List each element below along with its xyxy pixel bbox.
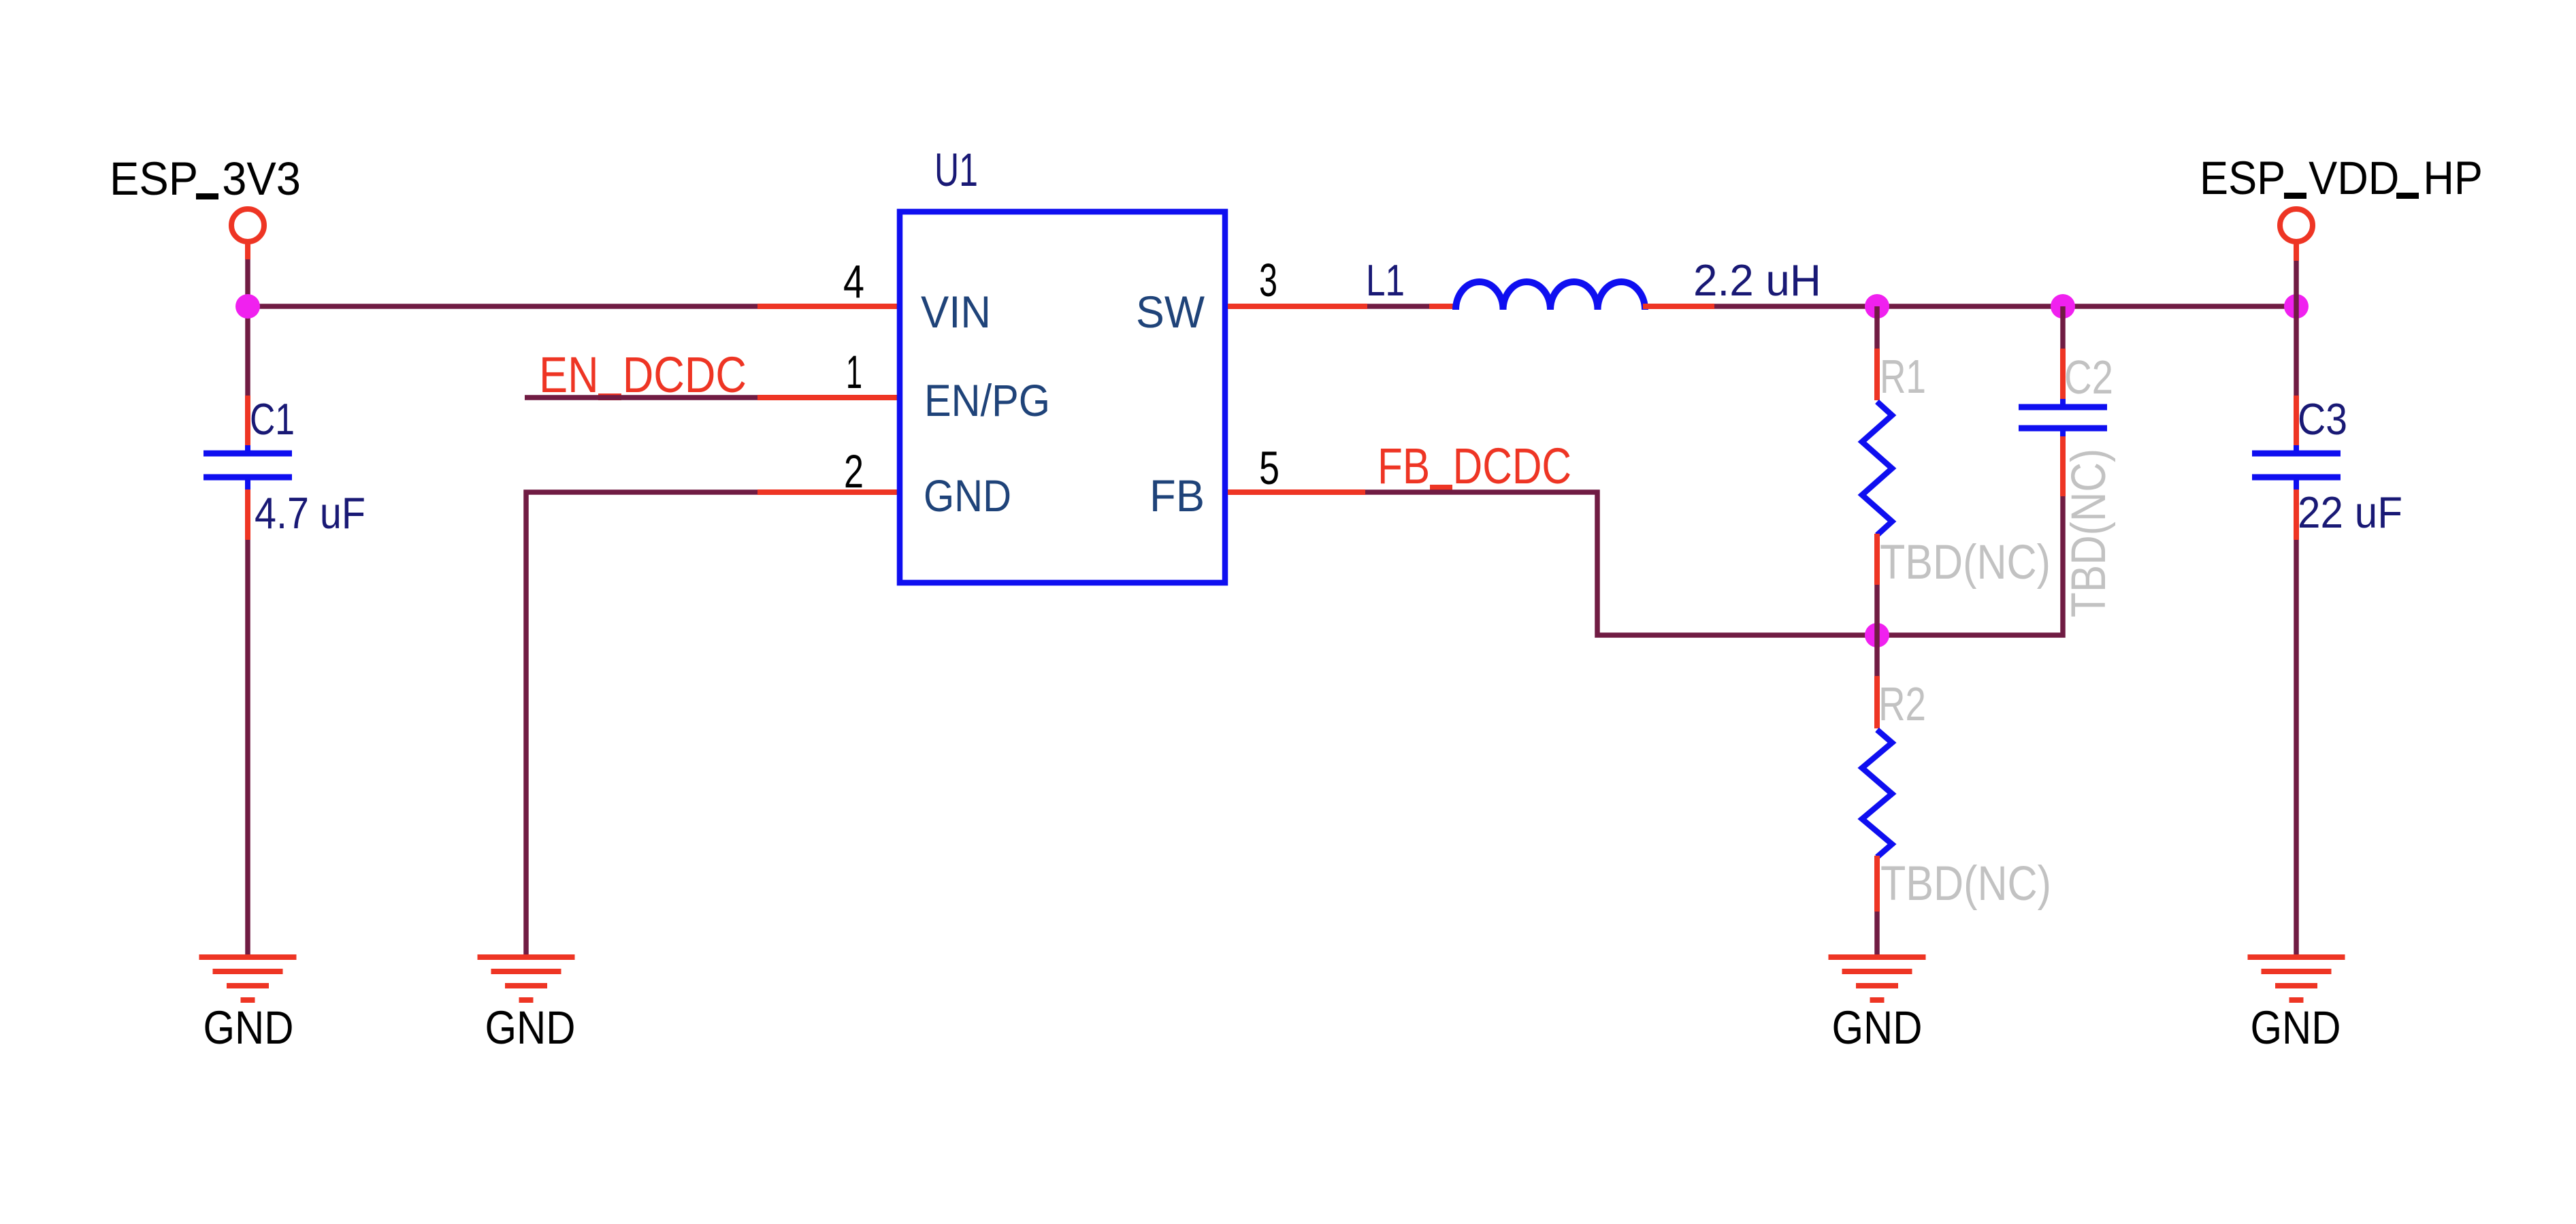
capacitor C3 top pin (red)	[2294, 396, 2299, 447]
svg-text:TBD(NC): TBD(NC)	[2062, 449, 2116, 617]
ground symbol GND1	[199, 957, 297, 1000]
wire SW to L1	[1367, 304, 1429, 309]
pin 4 VIN red stub	[757, 304, 897, 309]
wire R2 to GND3	[1874, 912, 1880, 954]
inductor L1 right pin (red)	[1643, 304, 1714, 309]
resistor R2 bottom pin (red)	[1874, 856, 1880, 912]
svg-text:U1: U1	[934, 144, 978, 196]
svg-text:C3: C3	[2298, 394, 2347, 444]
ground symbol GND2	[478, 957, 575, 1000]
capacitor C3 plates	[2252, 451, 2341, 457]
capacitor C1 bottom pin (red)	[245, 489, 250, 540]
wire C2 branch top	[2060, 306, 2066, 349]
svg-text:EN DCDC: EN DCDC	[539, 347, 747, 403]
svg-text:GND: GND	[203, 1001, 294, 1054]
junction at ESP_VDD_HP/C3	[2284, 294, 2309, 319]
resistor R2 zigzag	[1862, 730, 1892, 857]
capacitor C1 top nub	[245, 445, 250, 451]
resistor R2 top pin (red)	[1874, 676, 1880, 728]
wire C3 to GND4	[2294, 540, 2299, 954]
pin 5 FB red stub	[1228, 489, 1365, 495]
svg-text:R2: R2	[1878, 677, 1926, 730]
svg-text:FB DCDC: FB DCDC	[1377, 438, 1571, 494]
capacitor C1 top pin (red)	[245, 396, 250, 447]
svg-text:C2: C2	[2064, 351, 2113, 404]
pin 1 EN/PG red stub	[757, 395, 897, 400]
svg-text:FB: FB	[1150, 470, 1205, 521]
resistor R1 zigzag	[1862, 402, 1892, 535]
resistor R1 bottom pin (red)	[1874, 534, 1880, 585]
svg-text:4.7 uF: 4.7 uF	[255, 488, 365, 538]
wire ESP_3V3 vertical to C1	[245, 259, 250, 396]
wire EN_DCDC net	[525, 395, 757, 400]
svg-text:SW: SW	[1136, 287, 1205, 337]
inductor L1 left pin (red)	[1429, 304, 1456, 309]
svg-text:22 uF: 22 uF	[2298, 487, 2402, 537]
capacitor C2 plates	[2019, 404, 2107, 410]
ground symbol GND3	[1829, 957, 1926, 1000]
capacitor C2 top nub	[2060, 399, 2066, 404]
capacitor C2 bottom nub	[2060, 431, 2066, 436]
svg-text:GND: GND	[924, 470, 1011, 521]
node ESP_3V3 power port circle	[231, 209, 264, 242]
svg-text:5: 5	[1259, 442, 1279, 494]
capacitor C1 plates	[203, 451, 292, 457]
pin 3 SW red stub	[1228, 304, 1367, 309]
wire junction to R1	[1874, 306, 1880, 349]
pin 2 GND red stub	[757, 489, 897, 495]
junction at R1/R2 divider	[1865, 623, 1889, 647]
svg-text:1: 1	[846, 346, 862, 398]
svg-text:GND: GND	[1832, 1001, 1923, 1054]
svg-text:L1: L1	[1366, 255, 1405, 305]
wire ESP_VDD_HP port stub (red)	[2294, 242, 2299, 261]
node ESP_VDD_HP power port circle	[2280, 209, 2313, 242]
capacitor C3 top nub	[2294, 445, 2299, 451]
wire top rail left (ESP_3V3 to VIN)	[248, 304, 757, 309]
wire C1 to GND	[245, 540, 250, 954]
svg-text:TBD(NC): TBD(NC)	[1880, 536, 2051, 590]
wire R1 to divider junction	[1874, 585, 1880, 635]
svg-text:C1: C1	[250, 394, 295, 444]
capacitor C2 top pin (red)	[2060, 349, 2066, 400]
svg-text:TBD(NC): TBD(NC)	[1880, 857, 2051, 911]
junction at R1 branch	[1865, 294, 1889, 319]
capacitor C3 bottom pin (red)	[2294, 489, 2299, 540]
junction at ESP_3V3/C1	[235, 294, 260, 319]
svg-text:GND: GND	[2251, 1001, 2341, 1054]
wire divider junction to R2	[1874, 635, 1880, 676]
svg-text:R1: R1	[1880, 350, 1926, 403]
capacitor C1 bottom nub	[245, 480, 250, 489]
wire ESP_VDD_HP vertical to C3	[2294, 261, 2299, 396]
svg-text:2.2 uH: 2.2 uH	[1693, 255, 1821, 305]
capacitor C3 bottom nub	[2294, 480, 2299, 489]
svg-text:EN/PG: EN/PG	[924, 375, 1050, 425]
svg-text:VIN: VIN	[921, 287, 991, 337]
svg-text:4: 4	[843, 255, 864, 308]
junction at C2 branch	[2051, 294, 2075, 319]
inductor L1 coil	[1456, 282, 1645, 310]
wire top rail right (L1 to ESP_VDD_HP)	[1714, 304, 2296, 309]
svg-text:ESP VDD HP: ESP VDD HP	[2200, 152, 2483, 204]
op-amp U1 body	[900, 212, 1225, 583]
resistor R1 top pin (red)	[1874, 349, 1880, 400]
wire FB net (FB pin to divider)	[1365, 492, 2063, 635]
svg-text:3: 3	[1259, 254, 1277, 306]
svg-text:2: 2	[844, 445, 864, 498]
ground symbol GND4	[2248, 957, 2345, 1000]
capacitor C2 bottom pin (red)	[2060, 436, 2066, 496]
wire ESP_3V3 port stub (red)	[245, 242, 250, 259]
svg-text:GND: GND	[485, 1001, 576, 1054]
wire GND pin 2 net (corner to GND2)	[526, 492, 757, 954]
